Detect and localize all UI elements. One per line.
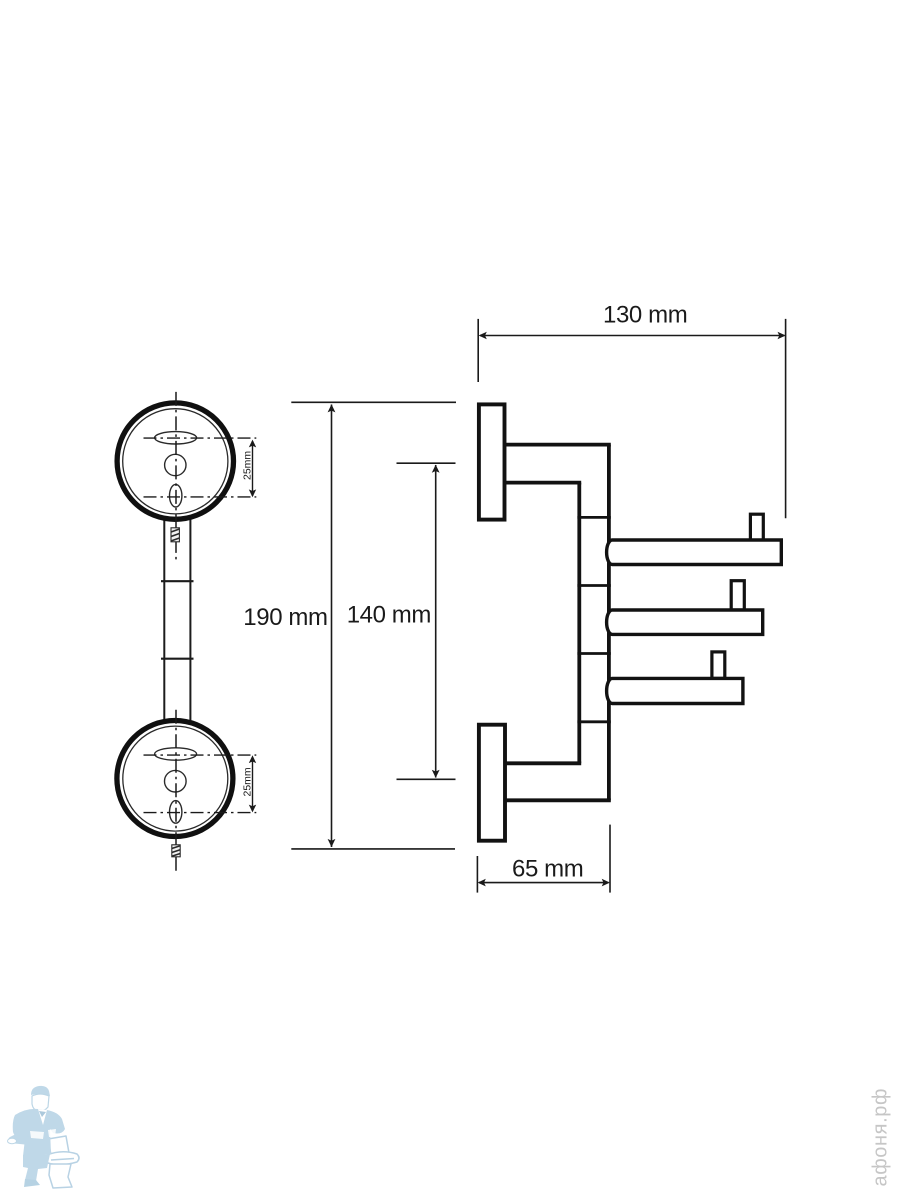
front view: top plate inner circle <box>123 409 228 514</box>
front view: bar joint line upper <box>161 580 194 582</box>
front view: bottom vertical centerline <box>175 710 177 874</box>
side view: top connector bottom edge <box>505 481 582 485</box>
svg-text:190 mm: 190 mm <box>243 604 327 631</box>
logo toilet seat <box>46 1152 79 1165</box>
front view: top plate upper centerline <box>144 437 257 439</box>
logo plumber bowtie <box>39 1111 46 1117</box>
dimension 140 mm bottom reference line <box>397 778 456 780</box>
front view: top plate center hole <box>165 454 186 475</box>
front view: bottom plate lower centerline <box>144 812 257 814</box>
side view: central pivot bar right edge <box>607 445 611 801</box>
logo plumber legs <box>23 1154 50 1181</box>
front view: top plate slot hole <box>155 432 197 444</box>
side view: hook 2 pin nub <box>731 581 744 610</box>
front view: bottom plate center hole <box>165 770 187 792</box>
front view: bottom plate slot hole <box>155 748 197 760</box>
side view: bottom connector top edge <box>505 761 582 765</box>
dimension 190 mm top reference line <box>291 401 456 403</box>
dimension 25mm (top circle) <box>252 441 254 496</box>
front view: bar joint line lower <box>161 658 194 660</box>
dimension 140 mm top reference line <box>397 462 456 464</box>
side view: hook 1 arm <box>607 540 782 565</box>
side view: bar joint line 4 <box>577 720 610 723</box>
side view: bottom connector bottom edge <box>505 798 611 802</box>
side view: bar joint line 2 <box>577 584 610 587</box>
dimension 65 mm right extension line <box>609 825 611 893</box>
logo toilet rim line <box>51 1159 74 1161</box>
side view: bottom wall plate <box>479 725 505 841</box>
logo plumber pocket highlight <box>30 1131 44 1139</box>
logo toilet base <box>49 1164 72 1188</box>
logo: plumber with toilet (bottom left) <box>8 1086 80 1188</box>
side view: central pivot bar left edge <box>577 483 581 764</box>
side view: hook 1 pin nub <box>750 514 763 540</box>
side view: top wall plate <box>479 404 505 519</box>
front view: bottom plate inner circle <box>123 726 228 831</box>
logo plumber shirt <box>38 1109 47 1125</box>
dimension 130 mm right extension line <box>785 319 787 518</box>
front view: top plate lower hole <box>170 484 182 507</box>
svg-text:130 mm: 130 mm <box>603 301 687 328</box>
side view: bar joint line 1 <box>577 516 610 519</box>
logo plumber boot <box>24 1179 40 1187</box>
side view: hook 3 pin nub <box>712 652 725 679</box>
dimension 190 mm bottom reference line <box>291 848 455 850</box>
svg-text:25mm: 25mm <box>241 767 253 796</box>
front view: bottom plate upper centerline <box>144 754 257 756</box>
dimension 25mm (bottom circle) <box>252 757 254 811</box>
svg-text:афоня.рф: афоня.рф <box>870 1088 892 1187</box>
logo plumber hand <box>8 1138 17 1144</box>
logo plumber face <box>32 1094 49 1111</box>
front view: top vertical centerline <box>175 392 177 561</box>
front view: mounting bar between plates <box>164 512 190 725</box>
front view: bottom plate lower hole <box>170 801 182 824</box>
dimension 130 mm line <box>480 335 785 337</box>
side view: hook 3 arm <box>607 678 743 703</box>
side view: top connector top edge <box>505 443 611 447</box>
side view: hook 2 arm <box>607 610 763 634</box>
dimension 65 mm left extension line <box>476 856 478 893</box>
front view: top wall plate outer circle <box>117 403 233 519</box>
logo plumber torso <box>13 1109 65 1156</box>
dimension 130 mm left extension line <box>477 319 479 382</box>
logo plumber right sleeve highlight <box>48 1129 56 1137</box>
front view: top plate lower centerline <box>144 496 257 498</box>
dimension 140 mm line <box>435 465 437 778</box>
front view: bottom set screw (hatched) <box>172 845 180 857</box>
svg-text:140 mm: 140 mm <box>347 602 431 629</box>
svg-text:25mm: 25mm <box>241 451 253 480</box>
front view: bottom wall plate outer circle <box>117 721 233 837</box>
dimension 190 mm line <box>331 405 333 848</box>
dimension 65 mm line <box>479 882 609 884</box>
side view: bar joint line 3 <box>577 652 610 655</box>
front view: top set screw (hatched) <box>171 528 179 542</box>
logo plumber left arm <box>8 1135 33 1145</box>
logo toilet tank <box>48 1136 69 1155</box>
logo plumber cap <box>31 1086 50 1096</box>
svg-text:65 mm: 65 mm <box>512 855 583 882</box>
